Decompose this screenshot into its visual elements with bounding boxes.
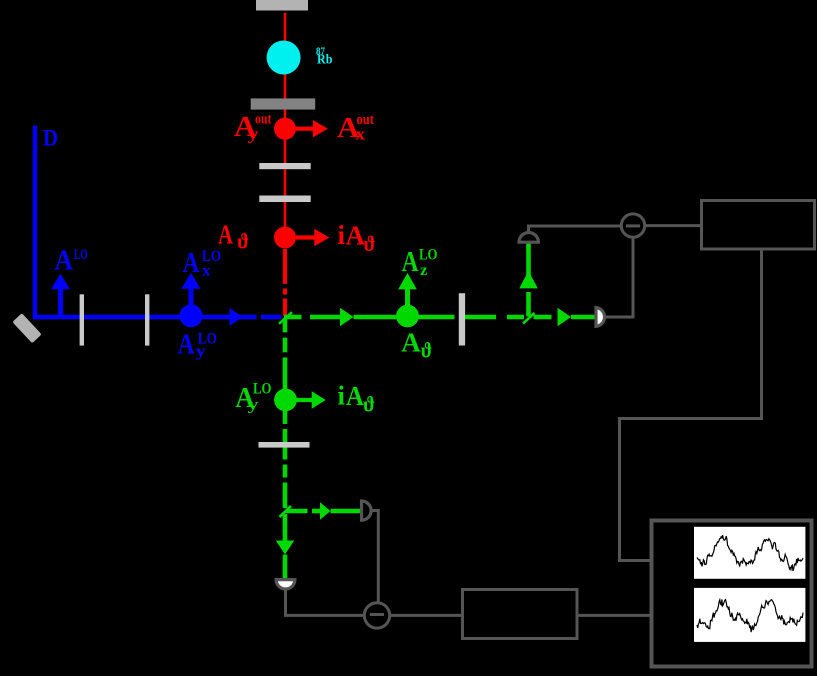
arrow: iA_theta (red, right) <box>296 235 316 239</box>
beam: green up to detector D1 <box>526 244 531 317</box>
arrow: green down direction <box>276 541 294 555</box>
svg-text:ϑ: ϑ <box>421 338 433 363</box>
svg-text:LO: LO <box>253 381 272 398</box>
node: red circle A_theta <box>274 227 296 249</box>
svg-text:x: x <box>356 124 366 143</box>
svg-text:ϑ: ϑ <box>363 392 375 417</box>
mirror M2 (output coupler, dark) <box>251 98 316 109</box>
wire <box>577 614 650 617</box>
arrow: A_z^LO (green up) <box>405 288 410 305</box>
label A_theta (green, below circle) <box>401 327 432 362</box>
label iA_theta (green) <box>338 381 376 417</box>
label: 87Rb atoms (cyan) <box>316 47 333 68</box>
beamsplitter tick at bottom junction <box>280 506 292 517</box>
wire <box>606 237 634 317</box>
arrow: blue beam direction <box>230 308 243 326</box>
label A_x^out (red) <box>337 112 374 144</box>
wire <box>645 224 702 227</box>
svg-text:LO: LO <box>419 246 438 263</box>
atomic ensemble (cyan cloud) <box>267 41 301 75</box>
svg-text:D: D <box>43 126 58 151</box>
scope trace panel 2 <box>694 588 805 642</box>
svg-text:x: x <box>202 262 211 279</box>
waveplate WP5 (vertical, green beam) <box>459 293 465 345</box>
arrow: green beam direction 1 <box>340 308 354 326</box>
beam: green right to detector D2 <box>286 509 361 514</box>
wire <box>390 614 463 617</box>
beam: green vertical down <box>283 318 288 579</box>
beamsplitter tick at right junction <box>523 313 535 324</box>
node: red output polarization circle <box>274 118 296 140</box>
label A_theta (red) <box>218 220 249 254</box>
svg-text:A: A <box>346 221 366 251</box>
svg-text:y: y <box>248 125 260 144</box>
node: green LO circle A_y <box>274 389 297 412</box>
beam: blue LO vertical line <box>33 126 37 320</box>
box: amplifier (bottom) <box>463 590 578 639</box>
svg-text:A: A <box>346 381 364 411</box>
node: green LO circle A_z <box>396 305 419 328</box>
svg-text:A: A <box>401 327 421 357</box>
svg-text:Rb: Rb <box>317 53 333 68</box>
waveplate WP2 (horizontal, red beam) <box>259 196 310 203</box>
svg-text:A: A <box>402 246 419 278</box>
wire <box>529 226 622 233</box>
label A_y^LO (green) <box>235 381 271 414</box>
arrow: A^LO polarization (blue up) <box>58 288 63 315</box>
beamsplitter tick at central junction <box>279 312 292 324</box>
beam: red cavity beam upper segments <box>284 13 287 227</box>
beam: red dashed into junction <box>283 249 287 316</box>
label A_y^out (red) <box>234 111 272 144</box>
oscilloscope box <box>652 521 812 667</box>
wire <box>286 589 365 615</box>
label A_x^LO (blue) <box>183 247 221 280</box>
beam: blue LO horizontal <box>33 315 282 319</box>
node: blue LO polarization circle <box>180 304 203 327</box>
svg-text:ϑ: ϑ <box>237 229 249 254</box>
detector D2 (dome right, open) <box>362 501 372 520</box>
waveplate WP1 (horizontal, red beam) <box>259 163 310 169</box>
arrow: green beam direction 2 (to detector) <box>558 308 572 326</box>
label iA_theta (red) <box>338 220 376 256</box>
label A_z^LO (green) <box>402 246 438 279</box>
svg-text:A: A <box>183 247 200 279</box>
scope trace panel 1 <box>694 527 805 579</box>
svg-text:y: y <box>196 343 206 360</box>
svg-text:y: y <box>248 397 259 414</box>
label A^LO (blue) <box>55 245 88 277</box>
arrow: green up direction <box>519 271 538 289</box>
svg-text:A: A <box>55 245 74 277</box>
arrow: green right direction (bottom) <box>320 502 331 520</box>
mirror M1 (top cavity mirror) <box>256 0 308 11</box>
wire <box>620 249 762 561</box>
label A_y^LO (blue, below circle) <box>178 328 217 360</box>
svg-text:i: i <box>338 220 346 250</box>
waveplate WP4 (vertical, blue beam) <box>145 294 149 345</box>
svg-text:ϑ: ϑ <box>364 231 376 256</box>
detector D4 (dome down, white) <box>276 580 295 589</box>
svg-text:A: A <box>178 328 195 360</box>
subtractor S1 (minus circle, top) <box>621 214 644 237</box>
svg-text:LO: LO <box>74 247 88 263</box>
subtractor S2 (minus circle, bottom) <box>364 603 389 628</box>
mirror M3 (45 deg fold mirror) <box>12 313 41 343</box>
box: amplifier (top right) <box>702 201 815 250</box>
arrow: iA_theta (green right) <box>297 398 314 402</box>
svg-text:i: i <box>338 381 346 411</box>
waveplate WP6 (horizontal, green beam) <box>259 442 310 448</box>
waveplate WP3 (vertical, blue beam) <box>80 294 84 345</box>
arrow: A_x^out (red, right) <box>296 127 314 131</box>
detector D1 (dome up, open) <box>519 232 538 242</box>
wire <box>371 511 378 603</box>
beam: green horizontal right <box>284 315 596 320</box>
svg-text:A: A <box>218 220 233 250</box>
detector D3 (dome right, white) <box>596 308 605 327</box>
arrow: A_x^LO (blue up from circle) <box>189 288 194 305</box>
svg-text:z: z <box>420 262 428 279</box>
